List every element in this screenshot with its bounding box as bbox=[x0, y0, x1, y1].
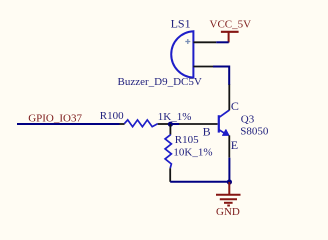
ground GND bar 4 bbox=[227, 205, 230, 207]
resistor R100 zigzag body bbox=[124, 120, 157, 127]
resistor R105 top pin bbox=[169, 124, 171, 135]
svg-text:1K_1%: 1K_1% bbox=[158, 111, 192, 123]
power port VCC_5V stem bbox=[228, 32, 230, 43]
resistor R100 left pin bbox=[120, 123, 125, 125]
transistor Q3 collector pin bbox=[228, 85, 230, 111]
power port VCC_5V bar symbol bbox=[221, 31, 239, 33]
resistor R105 bottom pin bbox=[169, 168, 171, 182]
transistor Q3 base pin bbox=[179, 123, 218, 125]
svg-text:Q3: Q3 bbox=[241, 113, 255, 125]
svg-text:S8050: S8050 bbox=[240, 125, 269, 137]
resistor R105 zigzag body bbox=[165, 135, 171, 169]
svg-text:LS1: LS1 bbox=[171, 17, 191, 31]
wire R105 bottom to ground junction bbox=[170, 181, 229, 183]
ground GND bar 3 bbox=[224, 202, 233, 204]
ground GND bar 2 bbox=[220, 198, 237, 200]
svg-text:GPIO_IO37: GPIO_IO37 bbox=[28, 112, 82, 124]
wire junction to Q3 base pin bbox=[170, 123, 179, 125]
svg-text:B: B bbox=[203, 125, 211, 139]
transistor Q3 collector lead bbox=[219, 110, 230, 118]
svg-text:R100: R100 bbox=[100, 110, 124, 122]
svg-text:Buzzer_D9_DC5V: Buzzer_D9_DC5V bbox=[118, 76, 202, 88]
transistor Q3 base bar bbox=[218, 115, 220, 132]
wire emitter pin to ground junction bbox=[228, 158, 230, 182]
ground GND bar 1 bbox=[216, 194, 241, 196]
ground GND stem bbox=[228, 182, 230, 194]
junction node at R100/R105/base bbox=[168, 122, 173, 127]
buzzer plus polarity mark bbox=[185, 39, 190, 44]
junction node at emitter/ground bbox=[227, 179, 232, 184]
svg-text:C: C bbox=[231, 99, 239, 113]
wire from buzzer pin2 to collector (horizontal + vertical) bbox=[213, 67, 229, 86]
transistor Q3 emitter lead with arrow bbox=[219, 130, 226, 134]
buzzer pin 2 (bottom) bbox=[193, 66, 213, 68]
wire from buzzer pin1 to VCC_5V bbox=[216, 41, 229, 43]
svg-text:GND: GND bbox=[216, 206, 240, 218]
svg-text:VCC_5V: VCC_5V bbox=[210, 19, 252, 31]
svg-text:10K_1%: 10K_1% bbox=[173, 146, 212, 158]
resistor R100 right pin bbox=[158, 123, 171, 125]
buzzer LS1 body bbox=[171, 31, 193, 77]
buzzer pin 1 (top, +) bbox=[193, 41, 216, 43]
wire GPIO_IO37 to R100 bbox=[17, 123, 120, 125]
transistor Q3 emitter pin bbox=[228, 135, 230, 157]
svg-text:R105: R105 bbox=[175, 134, 199, 146]
svg-text:E: E bbox=[231, 138, 238, 152]
